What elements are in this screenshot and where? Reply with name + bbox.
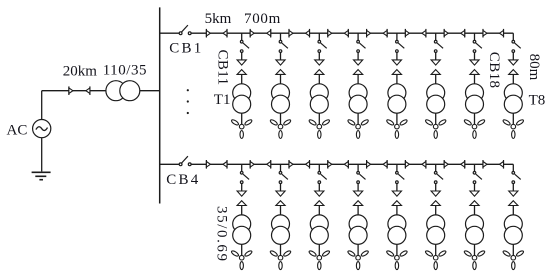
svg-text:5km: 5km	[205, 11, 232, 27]
wind turbine top-4 blades	[347, 119, 356, 126]
svg-text:CB4: CB4	[166, 172, 200, 188]
svg-text:T8: T8	[529, 92, 546, 108]
wind turbine top-5 blades	[386, 119, 395, 126]
switch top-7 blade	[476, 43, 482, 48]
switch bottom-5 upper contact	[396, 172, 399, 175]
transformer bottom-7	[466, 215, 484, 233]
wind turbine bottom-5 blades	[386, 250, 395, 257]
wire bottom-4 to turbine	[357, 244, 359, 255]
wire transformer to bus	[140, 90, 160, 92]
cable arrowheads segment CB1 3-4	[327, 29, 329, 38]
cable arrowheads segment CB4 2-3	[288, 160, 290, 169]
wire tap stub top-4	[357, 33, 359, 40]
fuse/breaker bottom-2	[276, 191, 285, 196]
wire bottom-6 to fuse	[435, 184, 437, 192]
switch bottom-1 upper contact	[240, 172, 243, 175]
wind turbine top-5 hub	[395, 124, 400, 129]
switch top-1 lower contact	[240, 50, 243, 53]
wind turbine bottom-5 hub	[395, 255, 400, 260]
switch bottom-8 blade	[515, 174, 521, 179]
transformer top-1	[233, 84, 251, 102]
switch bottom-3 lower contact	[318, 181, 321, 184]
transformer top-2	[272, 84, 290, 102]
cable arrowheads segment CB1 6-7	[443, 29, 445, 38]
wire tap stub top-1	[241, 33, 243, 40]
wire feeder CB1	[160, 32, 180, 34]
switch top-2 blade	[282, 43, 288, 48]
transformer bottom-1	[233, 215, 251, 233]
wire top-1 to turbine	[241, 113, 243, 124]
wire top-6 to turbine	[435, 113, 437, 124]
wire bottom-6 to turbine	[435, 244, 437, 255]
wire bottom-2 to turbine	[280, 244, 282, 255]
svg-text:35/0.69: 35/0.69	[214, 206, 230, 263]
wire AC riser and 20km line to transformer	[41, 91, 43, 120]
wire bottom-1 to fuse	[241, 184, 243, 192]
wire bottom-5 to turbine	[396, 244, 398, 255]
wire top-6 to transformer	[435, 74, 437, 84]
wire bottom-6 to transformer	[435, 206, 437, 216]
switch bottom-4 upper contact	[357, 172, 360, 175]
fuse/breaker top-3	[315, 60, 324, 65]
wire top-1 to fuse	[241, 52, 243, 60]
wind turbine bottom-2 hub	[278, 255, 283, 260]
svg-text:110/35: 110/35	[103, 62, 147, 78]
switch top-7 lower contact	[473, 50, 476, 53]
wind turbine top-4 hub	[356, 124, 361, 129]
fuse/breaker top-1	[237, 60, 246, 65]
wire bottom-7 to fuse	[474, 184, 476, 192]
switch top-3 lower contact	[318, 50, 321, 53]
wire bottom-2 to transformer	[280, 206, 282, 216]
wire top-3 to turbine	[318, 113, 320, 124]
fuse/breaker top-5	[392, 60, 401, 65]
svg-text:80m: 80m	[526, 54, 542, 81]
wind turbine bottom-3 blades	[308, 250, 317, 257]
switch top-4 blade	[360, 43, 366, 48]
wire tap stub bottom-3	[318, 164, 320, 171]
wind turbine top-1 blades	[231, 119, 240, 126]
wind turbine top-2 blades	[270, 119, 279, 126]
wind turbine bottom-4 hub	[356, 255, 361, 260]
wire top-6 to fuse	[435, 52, 437, 60]
wind turbine bottom-7 blades	[464, 250, 473, 257]
wire bottom-1 to transformer	[241, 206, 243, 216]
switch bottom-6 upper contact	[434, 172, 437, 175]
switch top-3 blade	[321, 43, 327, 48]
switch top-1 upper contact	[240, 40, 243, 43]
wind turbine bottom-6 blades	[425, 250, 434, 257]
wire top-5 to transformer	[396, 74, 398, 84]
wind turbine top-6 blades	[425, 119, 434, 126]
transformer top-6	[427, 84, 445, 102]
wire bottom-1 to turbine	[241, 244, 243, 255]
switch bottom-1 lower contact	[240, 181, 243, 184]
wind turbine top-8 hub	[511, 124, 516, 129]
wind turbine bottom-3 hub	[317, 255, 322, 260]
wire top-7 to fuse	[474, 52, 476, 60]
wind turbine bottom-1 blades	[231, 250, 240, 257]
wire bottom-8 to transformer	[512, 206, 514, 216]
cable arrowheads segment CB1 2-3	[288, 29, 290, 38]
switch bottom-6 lower contact	[434, 181, 437, 184]
fuse/breaker top-2	[276, 60, 285, 65]
cable arrowheads segment CB1 7-8	[482, 29, 484, 38]
switch bottom-7 blade	[476, 174, 482, 179]
bus 35kV	[159, 7, 161, 203]
switch top-2 upper contact	[279, 40, 282, 43]
transformer bottom-5	[388, 215, 406, 233]
wire bottom-8 to turbine	[512, 244, 514, 255]
transformer 110/35	[106, 81, 126, 101]
cable arrowheads segment CB4 7-8	[482, 160, 484, 169]
fuse/breaker bottom-6	[431, 191, 440, 196]
wire AC to ground	[41, 138, 43, 172]
wire top-8 to fuse	[512, 52, 514, 60]
switch bottom-5 lower contact	[396, 181, 399, 184]
switch top-2 lower contact	[279, 50, 282, 53]
wire top-2 to transformer	[280, 74, 282, 84]
switch bottom-1 blade	[243, 174, 249, 179]
wire tap stub top-2	[280, 33, 282, 40]
wire top-7 to turbine	[474, 113, 476, 124]
fuse/breaker top-7	[470, 60, 479, 65]
svg-text:AC: AC	[7, 122, 28, 138]
wire top-4 to transformer	[357, 74, 359, 84]
wire top-1 to transformer	[241, 74, 243, 84]
svg-text:20km: 20km	[63, 63, 98, 79]
transformer bottom-8	[504, 215, 522, 233]
cable arrowheads segment CB4 5-6	[404, 160, 406, 169]
transformer top-3	[310, 84, 328, 102]
wire top-4 to turbine	[357, 113, 359, 124]
switch top-8 upper contact	[512, 40, 515, 43]
wire top-8 to turbine	[512, 113, 514, 124]
svg-text:700m: 700m	[244, 11, 281, 27]
wind turbine bottom-8 blades	[502, 250, 511, 257]
fuse/breaker bottom-7	[470, 191, 479, 196]
wire bottom-7 to turbine	[474, 244, 476, 255]
switch bottom-4 blade	[360, 174, 366, 179]
fuse/breaker top-6	[431, 60, 440, 65]
wire top-3 to transformer	[318, 74, 320, 84]
line 20km arrowhead left	[89, 86, 91, 95]
switch top-4 lower contact	[357, 50, 360, 53]
switch top-6 lower contact	[434, 50, 437, 53]
wire bottom-4 to transformer	[357, 206, 359, 216]
cable arrowheads segment CB4 4-5	[366, 160, 368, 169]
wire top-7 to transformer	[474, 74, 476, 84]
ground	[32, 171, 51, 173]
cable arrowheads segment CB1 1-2	[249, 29, 251, 38]
disconnector switch CB1	[181, 25, 188, 32]
switch bottom-3 upper contact	[318, 172, 321, 175]
switch bottom-8 lower contact	[512, 181, 515, 184]
wire tap stub bottom-1	[241, 164, 243, 171]
wire top-2 to fuse	[280, 52, 282, 60]
wire tap stub top-5	[396, 33, 398, 40]
switch bottom-5 blade	[398, 174, 404, 179]
switch bottom-7 lower contact	[473, 181, 476, 184]
transformer top-5	[388, 84, 406, 102]
cable arrowheads bus-side segment CB4	[205, 160, 207, 169]
wire top-3 to fuse	[318, 52, 320, 60]
wire bottom-3 to fuse	[318, 184, 320, 192]
wind turbine bottom-2 blades	[270, 250, 279, 257]
switch bottom-7 upper contact	[473, 172, 476, 175]
fuse/breaker bottom-4	[354, 191, 363, 196]
wire bottom-4 to fuse	[357, 184, 359, 192]
cable arrowheads segment CB1 4-5	[366, 29, 368, 38]
switch top-6 blade	[437, 43, 443, 48]
switch bottom-2 lower contact	[279, 181, 282, 184]
wind turbine top-7 hub	[472, 124, 477, 129]
AC source G1	[33, 120, 51, 138]
cable arrowheads segment CB4 1-2	[249, 160, 251, 169]
switch top-5 lower contact	[396, 50, 399, 53]
fuse/breaker top-8	[509, 60, 518, 65]
wire tap stub top-8	[512, 33, 514, 40]
wire top-8 to transformer	[512, 74, 514, 84]
cable arrowheads bus-side segment CB1	[205, 29, 207, 38]
svg-text:CB1: CB1	[169, 41, 203, 57]
transformer bottom-2	[272, 215, 290, 233]
wind turbine top-8 blades	[502, 119, 511, 126]
fuse/breaker bottom-1	[237, 191, 246, 196]
wind turbine top-1 hub	[239, 124, 244, 129]
wind turbine bottom-7 hub	[472, 255, 477, 260]
transformer bottom-3	[310, 215, 328, 233]
wind turbine top-2 hub	[278, 124, 283, 129]
switch top-1 blade	[243, 43, 249, 48]
switch bottom-6 blade	[437, 174, 443, 179]
fuse/breaker bottom-8	[509, 191, 518, 196]
wire tap stub bottom-6	[435, 164, 437, 171]
switch top-8 lower contact	[512, 50, 515, 53]
transformer top-7	[466, 84, 484, 102]
switch bottom-8 upper contact	[512, 172, 515, 175]
wire feeder CB4	[160, 163, 180, 165]
wire top-4 to fuse	[357, 52, 359, 60]
wire tap stub top-6	[435, 33, 437, 40]
vertical ellipsis dots (feeders CB2-CB3 omitted)	[187, 89, 189, 91]
wind turbine top-3 blades	[308, 119, 317, 126]
disconnector switch CB4	[181, 156, 188, 163]
wind turbine top-7 blades	[464, 119, 473, 126]
wire bottom-8 to fuse	[512, 184, 514, 192]
wire tap stub top-7	[474, 33, 476, 40]
wind turbine top-6 hub	[433, 124, 438, 129]
wind turbine bottom-6 hub	[433, 255, 438, 260]
transformer top-4	[349, 84, 367, 102]
cable arrowheads segment CB4 6-7	[443, 160, 445, 169]
wire top-2 to turbine	[280, 113, 282, 124]
wind turbine top-3 hub	[317, 124, 322, 129]
switch top-8 blade	[515, 43, 521, 48]
fuse/breaker bottom-3	[315, 191, 324, 196]
switch top-6 upper contact	[434, 40, 437, 43]
wind turbine bottom-8 hub	[511, 255, 516, 260]
wire tap stub bottom-8	[512, 164, 514, 171]
wire top-5 to turbine	[396, 113, 398, 124]
switch top-5 upper contact	[396, 40, 399, 43]
cable arrowheads segment CB1 5-6	[404, 29, 406, 38]
wire tap stub bottom-2	[280, 164, 282, 171]
switch top-3 upper contact	[318, 40, 321, 43]
wire tap stub top-3	[318, 33, 320, 40]
wire tap stub bottom-4	[357, 164, 359, 171]
wire tap stub bottom-5	[396, 164, 398, 171]
transformer bottom-4	[349, 215, 367, 233]
svg-text:CB11: CB11	[215, 50, 231, 86]
cable arrowheads segment CB4 3-4	[327, 160, 329, 169]
switch bottom-2 blade	[282, 174, 288, 179]
line 20km arrowhead right	[68, 86, 70, 95]
transformer bottom-6	[427, 215, 445, 233]
fuse/breaker top-4	[354, 60, 363, 65]
wire bottom-3 to turbine	[318, 244, 320, 255]
wind turbine bottom-4 blades	[347, 250, 356, 257]
wind turbine bottom-1 hub	[239, 255, 244, 260]
wire tap stub bottom-7	[474, 164, 476, 171]
switch bottom-2 upper contact	[279, 172, 282, 175]
fuse/breaker bottom-5	[392, 191, 401, 196]
transformer top-8	[504, 84, 522, 102]
wire bottom-7 to transformer	[474, 206, 476, 216]
wire top-5 to fuse	[396, 52, 398, 60]
wire bottom-5 to transformer	[396, 206, 398, 216]
switch top-4 upper contact	[357, 40, 360, 43]
svg-text:T1: T1	[214, 92, 231, 108]
wire bottom-3 to transformer	[318, 206, 320, 216]
switch top-7 upper contact	[473, 40, 476, 43]
switch top-5 blade	[398, 43, 404, 48]
wire bottom-2 to fuse	[280, 184, 282, 192]
svg-text:CB18: CB18	[486, 52, 502, 89]
switch bottom-3 blade	[321, 174, 327, 179]
wire bottom-5 to fuse	[396, 184, 398, 192]
switch bottom-4 lower contact	[357, 181, 360, 184]
